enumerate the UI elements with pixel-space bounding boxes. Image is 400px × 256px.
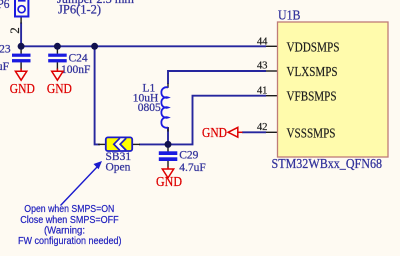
- jumper JP6: [15, 0, 28, 17]
- svg-text:Open: Open: [106, 162, 131, 174]
- junction at C23 / bus: [18, 43, 25, 50]
- svg-text:STM32WBxx_QFN68: STM32WBxx_QFN68: [272, 156, 383, 171]
- wire: main bus from C23 node to pin 44: [21, 45, 266, 47]
- svg-text:GND: GND: [202, 125, 227, 140]
- pin stub: JP6 pin 2: [20, 17, 22, 24]
- svg-text:0805: 0805: [138, 102, 161, 114]
- svg-text:JP6(1-2): JP6(1-2): [58, 3, 101, 17]
- capacitor C23: [12, 54, 31, 63]
- wire: junction to pin 41 (VFBSMPS feedback): [168, 96, 266, 145]
- ground symbol below C24: [47, 69, 72, 97]
- svg-text:42: 42: [257, 121, 268, 133]
- solder bridge SB31: [106, 137, 132, 151]
- svg-text:C29: C29: [179, 149, 198, 161]
- capacitor C24: [48, 54, 66, 63]
- svg-text:C24: C24: [69, 53, 88, 65]
- wire: L1 top to pin 43 (VLXSMPS): [168, 71, 266, 84]
- svg-text:(Warning:: (Warning:: [44, 225, 85, 236]
- wire: vertical drop from bus to SB31: [95, 46, 100, 144]
- wire: pin 42 to GND arrow: [242, 131, 266, 133]
- pin stub: C23 top: [20, 46, 22, 54]
- svg-text:4.7uF: 4.7uF: [0, 61, 9, 73]
- svg-text:GND: GND: [10, 81, 35, 96]
- svg-text:VLXSMPS: VLXSMPS: [287, 65, 338, 80]
- ground symbol below C23: [10, 69, 35, 97]
- pin stub: C29 top: [167, 144, 169, 151]
- svg-text:100nF: 100nF: [61, 64, 90, 76]
- wire: L1 bottom to junction: [167, 128, 169, 145]
- svg-text:VFBSMPS: VFBSMPS: [287, 90, 337, 105]
- svg-text:2: 2: [7, 27, 22, 34]
- svg-text:4.7uF: 4.7uF: [179, 162, 206, 174]
- pin stub: C24 top: [56, 46, 58, 54]
- pin stub: SB31 left: [98, 143, 106, 145]
- svg-text:44: 44: [257, 35, 268, 47]
- svg-text:GND: GND: [156, 174, 182, 189]
- ground symbol at pin 42: [202, 125, 243, 140]
- junction at SB31 drop / bus: [91, 43, 98, 50]
- junction at C24 / bus: [54, 43, 61, 50]
- junction at L1 / C29 / SB31 node: [165, 141, 172, 148]
- pin stub: U1B pin 42: [266, 131, 278, 133]
- pin stub: C29 bottom: [167, 161, 169, 168]
- svg-text:Open when SMPS=ON: Open when SMPS=ON: [24, 204, 114, 215]
- svg-text:Close when SMPS=OFF: Close when SMPS=OFF: [20, 215, 119, 226]
- pin stub: C24 bottom: [56, 62, 58, 69]
- ground symbol below C29: [156, 167, 182, 190]
- pin stub: U1B pin 44: [266, 45, 278, 47]
- wire: jumper JP6 pin 2 down to bus: [20, 23, 22, 47]
- svg-text:C23: C23: [0, 44, 11, 56]
- inductor L1: [161, 87, 168, 128]
- pin stub: U1B pin 43: [266, 70, 278, 72]
- pin stub: SB31 right: [132, 143, 140, 145]
- capacitor C29: [159, 151, 178, 161]
- wire: SB31 to junction at C29: [139, 143, 168, 145]
- svg-text:U1B: U1B: [278, 9, 301, 24]
- svg-text:FW configuration needed): FW configuration needed): [18, 236, 122, 247]
- pin stub: L1 top: [167, 84, 169, 88]
- svg-text:GND: GND: [47, 81, 72, 96]
- svg-text:41: 41: [257, 84, 268, 96]
- svg-text:JP6: JP6: [0, 0, 9, 11]
- pin stub: L1 bottom: [167, 127, 169, 132]
- svg-text:VDDSMPS: VDDSMPS: [287, 40, 340, 55]
- svg-text:VSSSMPS: VSSSMPS: [287, 126, 336, 141]
- pin stub: C23 bottom: [20, 62, 22, 69]
- annotation arrow pointing to SB31: [61, 161, 103, 206]
- annotation note text: [18, 204, 122, 247]
- svg-text:43: 43: [257, 60, 268, 72]
- pin stub: U1B pin 41: [266, 95, 278, 97]
- IC block U1B (STM32WBxx_QFN68): [278, 22, 389, 157]
